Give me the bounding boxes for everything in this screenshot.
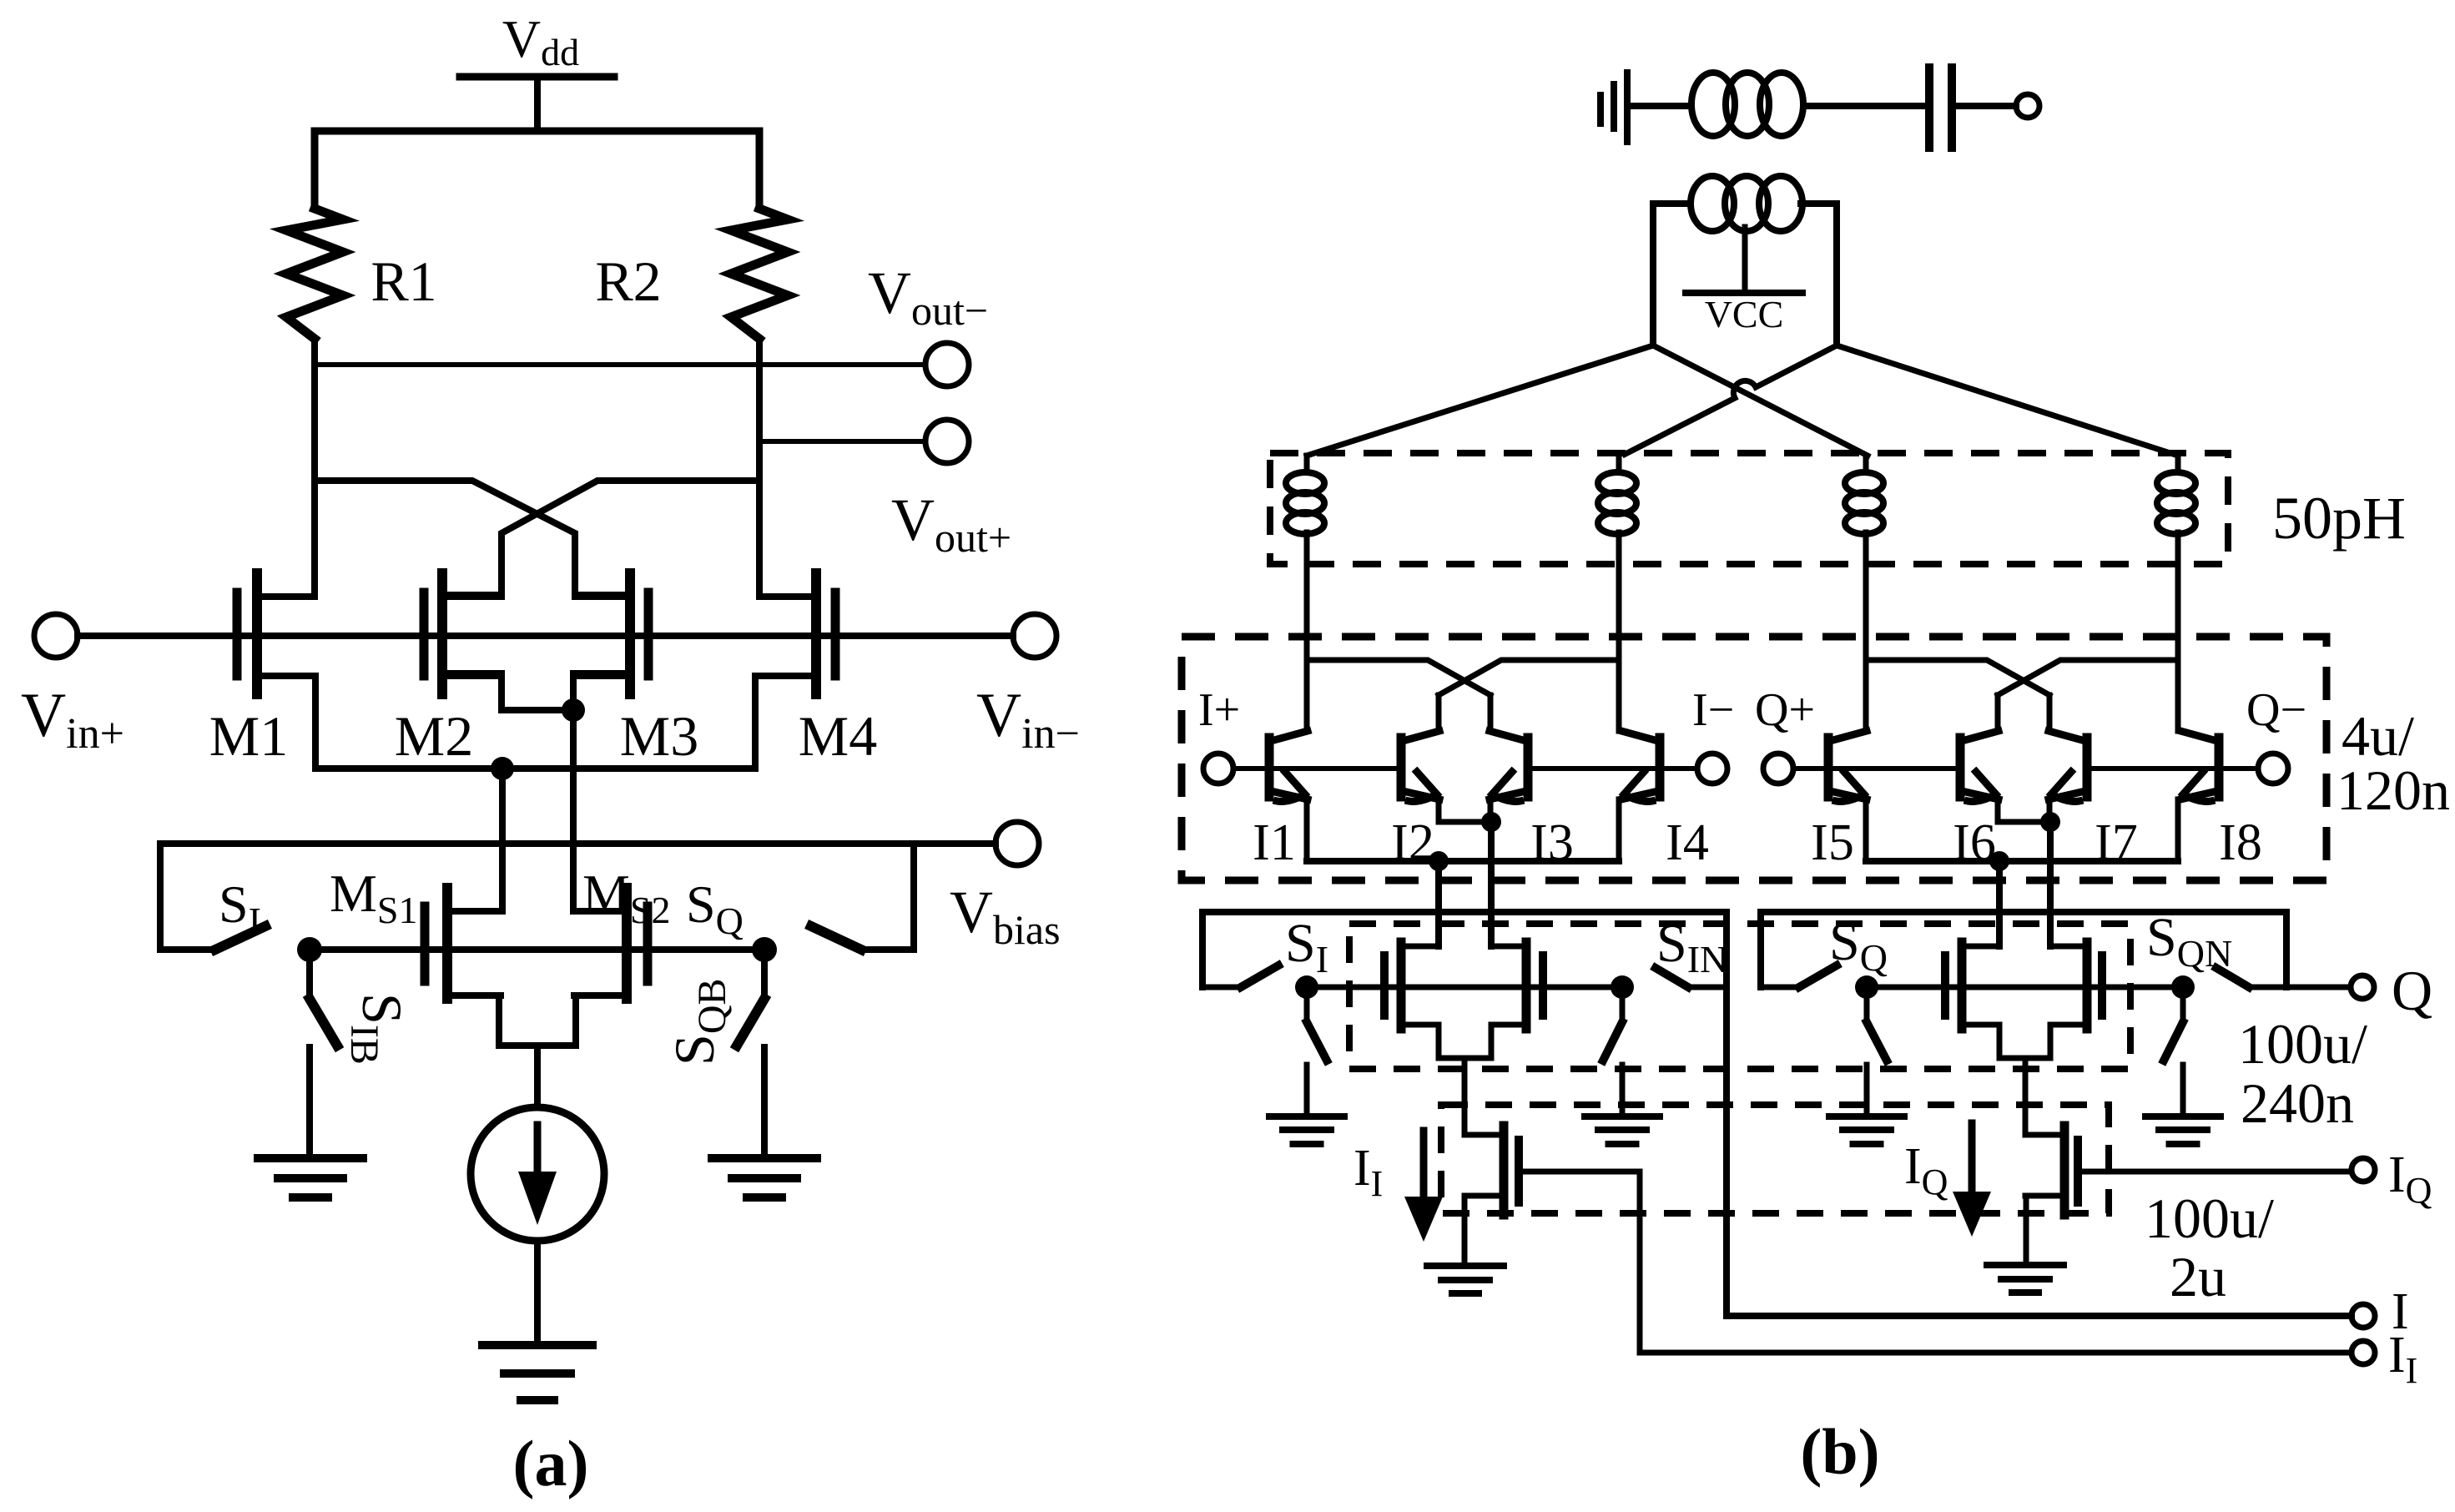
label VCC — [1705, 293, 1784, 335]
box Q switch cell — [1761, 912, 2286, 987]
wire current source to ground — [534, 1241, 541, 1345]
label SI (b) — [1285, 913, 1328, 980]
svg-text:VCC: VCC — [1705, 293, 1784, 335]
terminal Vin- — [1013, 614, 1056, 658]
label SQN — [2146, 907, 2232, 975]
wire Q mirror gate to IQ terminal — [2078, 1169, 2352, 1175]
svg-text:I5: I5 — [1811, 814, 1854, 871]
wire I7/I8 base to Q- — [2087, 766, 2258, 771]
terminal I- — [1697, 753, 1727, 784]
label I4 — [1666, 814, 1709, 871]
wire Vbias rail — [160, 844, 996, 950]
wire M2/M3 node down to MS2 drain — [570, 710, 577, 911]
wire tail node down to MS1 drain — [499, 769, 506, 911]
box 100u/240n switch pairs — [1349, 924, 2130, 1069]
label Vdd — [502, 9, 579, 73]
switch SQB — [737, 950, 764, 1157]
transistor M4 — [759, 573, 835, 694]
wire Vin+ input gate line — [78, 633, 1013, 639]
wire capacitor to output — [1957, 103, 2016, 109]
wire cross-couple R2 to M2 gate-drain — [445, 481, 759, 595]
node SQ gate (b) — [1855, 975, 1878, 999]
label II terminal — [2388, 1327, 2417, 1391]
svg-text:(b): (b) — [1800, 1415, 1879, 1488]
label I6 — [1953, 814, 1996, 871]
transistor I mirror — [1464, 1126, 1519, 1215]
svg-text:I1: I1 — [1253, 814, 1296, 871]
wire MS1/MS2 gate line — [310, 946, 764, 953]
label I7 — [2095, 814, 2138, 871]
transistor I2 — [1401, 660, 1619, 822]
wire I cell gate line — [1307, 985, 1622, 990]
label I- — [1692, 684, 1734, 736]
wire I mirror source to ground — [1462, 1196, 1468, 1266]
wire M3 source to common node — [573, 673, 630, 710]
wire I3/I4 base to I- — [1528, 766, 1697, 771]
label SQB — [663, 978, 734, 1066]
inductor RF choke — [1691, 73, 1803, 136]
wire I cell right edge to I output — [1723, 912, 1730, 1316]
label Vbias — [950, 879, 1061, 953]
label M2 — [395, 704, 473, 768]
transistor MS1 — [425, 888, 501, 999]
current source Ibias — [471, 1107, 604, 1241]
wire I5/I8 emitter bus — [1866, 858, 2178, 864]
box 100u/2u mirrors — [1441, 1105, 2109, 1213]
node right emitter bus junction — [1989, 851, 2009, 871]
wire tank to column L1 — [1307, 345, 1653, 456]
label MS2 — [582, 864, 671, 931]
transistor I1 — [1269, 660, 1308, 861]
wire MS1/MS2 common source bus — [447, 995, 627, 1046]
wire Vout+ tap — [759, 439, 925, 444]
power symbol Vdd — [460, 77, 614, 131]
wire I+ base line — [1233, 766, 1401, 771]
terminal Vin+ — [34, 614, 78, 658]
switch SQ (b) — [1761, 965, 1837, 987]
switch SIB — [310, 950, 337, 1157]
transistor M3 — [575, 573, 648, 694]
svg-text:120n: 120n — [2337, 759, 2450, 822]
transformer tank coil — [1691, 176, 1802, 231]
label IQ terminal — [2388, 1147, 2432, 1211]
wire R1 bottom to M1 drain — [311, 339, 318, 597]
label SIB — [342, 993, 414, 1065]
svg-text:50pH: 50pH — [2272, 485, 2406, 552]
wire top rail Vdd to R1/R2 — [315, 131, 759, 209]
terminal IQ — [2352, 1158, 2375, 1182]
wire M2 source to common node — [442, 673, 573, 710]
svg-text:I: I — [2392, 1283, 2409, 1340]
label R2 — [595, 249, 661, 313]
node SIN gate — [1611, 975, 1634, 999]
caption (a) — [513, 1427, 589, 1499]
ground under SQ (b) — [1829, 1116, 1904, 1144]
svg-text:I−: I− — [1692, 684, 1734, 736]
svg-text:R2: R2 — [595, 249, 661, 313]
svg-text:I4: I4 — [1666, 814, 1709, 871]
switch SIN — [1656, 968, 1727, 987]
terminal RF output — [2016, 94, 2039, 118]
caption (b) — [1800, 1415, 1879, 1488]
node SI gate (b) — [1295, 975, 1318, 999]
svg-text:2u: 2u — [2170, 1245, 2226, 1308]
label 100u/ (mirror) — [2145, 1187, 2274, 1250]
wire M4 source to tail rail — [752, 676, 759, 769]
svg-text:I8: I8 — [2219, 814, 2262, 871]
label 4u/ — [2342, 704, 2414, 768]
label I1 — [1253, 814, 1296, 871]
label SI — [219, 874, 261, 942]
svg-text:M2: M2 — [395, 704, 473, 768]
wire tail rail M1-M4 sources — [315, 765, 755, 772]
transistor I8 — [2178, 660, 2219, 861]
label M4 — [799, 704, 877, 768]
inductor L2 50pH — [1598, 456, 1636, 660]
wire tail to current source — [534, 1046, 541, 1107]
label MS1 — [330, 864, 418, 931]
svg-text:Q: Q — [2392, 959, 2432, 1022]
label SQ (b) — [1829, 911, 1888, 979]
wire tank coil right side — [1801, 204, 1837, 345]
label Vin- — [976, 681, 1080, 758]
transistor I5 — [1828, 660, 1867, 861]
inductor L4 50pH — [2157, 456, 2195, 660]
inductor L3 50pH — [1845, 456, 1883, 660]
svg-text:100u/: 100u/ — [2145, 1187, 2274, 1250]
label Q- — [2246, 684, 2306, 736]
label I5 — [1811, 814, 1854, 871]
label 120n — [2337, 759, 2450, 822]
svg-text:M3: M3 — [620, 704, 698, 768]
label 100u/ (switch) — [2238, 1012, 2367, 1076]
label Vout- — [868, 260, 988, 334]
terminal Q — [2351, 975, 2374, 999]
node tail rail junction — [491, 757, 514, 780]
label 50pH — [2272, 485, 2406, 552]
terminal II — [2352, 1341, 2375, 1364]
transistor MSIN — [1491, 942, 1543, 1029]
transistor M1 — [237, 573, 315, 694]
label I8 — [2219, 814, 2262, 871]
transistor MS2 — [574, 888, 648, 999]
switch SI lower branch to ground — [1307, 987, 1327, 1115]
label 2u — [2170, 1245, 2226, 1308]
wire M1 source to tail rail — [312, 676, 319, 769]
ground under SIN — [1585, 1116, 1660, 1144]
wire choke to capacitor — [1803, 103, 1923, 109]
wire emitter bus down — [1435, 861, 1442, 946]
wire right emitter bus down — [1996, 861, 2003, 946]
label R1 — [371, 249, 436, 313]
transistor MSQN — [2050, 942, 2102, 1029]
svg-text:Q−: Q− — [2246, 684, 2306, 736]
wire I mirror drain — [1462, 1058, 1468, 1135]
terminal I — [2352, 1304, 2375, 1328]
svg-text:M1: M1 — [209, 704, 288, 768]
wire I output line — [1727, 1313, 2352, 1319]
resistor R1 — [286, 209, 343, 339]
node M2/M3 common source — [562, 698, 585, 722]
AC ground at bias feed — [1601, 73, 1627, 142]
ground under SI (b) — [1269, 1116, 1344, 1144]
label SIN — [1656, 913, 1727, 980]
terminal Q- — [2258, 753, 2288, 784]
label M1 — [209, 704, 288, 768]
svg-text:R1: R1 — [371, 249, 436, 313]
capacitor DC block — [1929, 68, 1952, 148]
wire AC ground to choke — [1627, 103, 1691, 109]
box 50pH inductors — [1270, 453, 2228, 564]
wire Q+ base line — [1793, 766, 1960, 771]
svg-text:I+: I+ — [1198, 684, 1240, 736]
ground under SQB — [712, 1158, 817, 1197]
transistor M2 — [424, 573, 502, 694]
label M3 — [620, 704, 698, 768]
terminal Vout+ — [925, 420, 969, 463]
switch SQN lower branch to ground — [2164, 987, 2183, 1115]
wire Q mirror source to ground — [2024, 1196, 2029, 1265]
svg-text:100u/: 100u/ — [2238, 1012, 2367, 1076]
wire MSQ/MSQN common source — [1999, 1025, 2050, 1058]
box I switch cell — [1202, 912, 1727, 987]
wire I6/I7 emitters down — [2047, 822, 2054, 946]
label 240n — [2241, 1071, 2354, 1135]
wire I2/I3 emitters down — [1488, 822, 1495, 946]
node SI/MS1 gate — [297, 937, 322, 962]
label Q+ — [1755, 684, 1815, 736]
box BJT quad 4u/120n — [1182, 637, 2326, 880]
terminal Vout- — [925, 343, 969, 386]
label I terminal — [2392, 1283, 2409, 1340]
wire Q mirror drain — [2023, 1058, 2029, 1135]
switch SQN — [2216, 968, 2286, 987]
wire R2 bottom to M4 drain — [756, 339, 763, 597]
transistor I3 — [1307, 660, 1528, 822]
wire cross-couple R1 to M3 gate-drain — [315, 481, 630, 595]
transistor Q mirror — [2025, 1126, 2078, 1215]
ground under SIB — [258, 1158, 363, 1197]
wire Q cell to Q terminal — [2286, 985, 2351, 990]
wire tank coil left side — [1653, 204, 1691, 345]
switch SQ — [811, 926, 914, 950]
wire I mirror gate to II terminal — [1519, 1172, 2352, 1353]
wire tank to column L3 (crossing) — [1653, 345, 1868, 456]
transistor I7 — [1866, 660, 2087, 822]
transistor I4 — [1619, 660, 1660, 861]
resistor R2 — [731, 209, 788, 339]
node SQ/MS2 gate — [752, 937, 777, 962]
wire I1/I4 emitter bus — [1307, 858, 1619, 864]
node SQN gate — [2171, 975, 2195, 999]
label I3 — [1530, 814, 1574, 871]
label Vout+ — [891, 486, 1011, 561]
label I2 — [1391, 814, 1434, 871]
switch SIN lower branch to ground — [1603, 987, 1622, 1115]
label SQ — [686, 874, 744, 942]
wire MSI/MSIN common source — [1439, 1025, 1491, 1058]
power symbol VCC — [1686, 290, 1802, 296]
node I6/I7 common emitter — [2040, 812, 2060, 832]
ground under I mirror — [1427, 1266, 1504, 1293]
label II with arrow — [1354, 1131, 1443, 1242]
wire Vout- tap — [315, 362, 925, 367]
node I2/I3 common emitter — [1481, 812, 1501, 832]
terminal Q+ — [1763, 753, 1793, 784]
wire tank to column L2 (with hop) — [1622, 345, 1837, 456]
inductor L1 50pH — [1286, 456, 1324, 660]
switch SI (b) — [1202, 965, 1278, 987]
transistor MSQ — [1945, 942, 1999, 1029]
label Q terminal — [2392, 959, 2432, 1022]
transistor I6 — [1960, 660, 2178, 822]
svg-text:240n: 240n — [2241, 1071, 2354, 1135]
switch SI — [160, 926, 265, 950]
wire tank center tap — [1742, 227, 1748, 293]
ground under SQN — [2145, 1116, 2221, 1144]
svg-text:(a): (a) — [513, 1427, 589, 1499]
label IQ with arrow — [1904, 1123, 1991, 1237]
transistor MSI — [1384, 942, 1439, 1029]
wire Q cell gate line — [1867, 985, 2183, 990]
terminal Vbias — [996, 822, 1039, 865]
ground under current source — [482, 1345, 592, 1400]
label I+ — [1198, 684, 1240, 736]
switch SQ lower branch to ground — [1867, 987, 1887, 1115]
terminal I+ — [1203, 753, 1233, 784]
ground under Q mirror — [1987, 1265, 2064, 1293]
svg-text:M4: M4 — [799, 704, 877, 768]
label Vin+ — [21, 681, 124, 758]
svg-text:Q+: Q+ — [1755, 684, 1815, 736]
node emitter bus junction — [1429, 851, 1449, 871]
wire tank to column L4 — [1837, 345, 2178, 456]
